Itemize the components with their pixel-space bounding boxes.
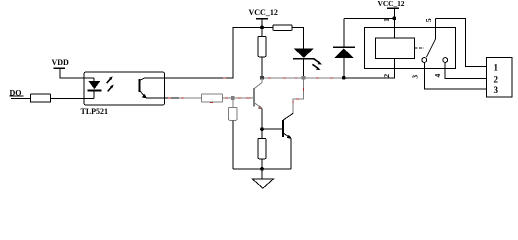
resistor R6 stem bottom xyxy=(232,120,234,169)
wire to Q2 base xyxy=(262,128,283,130)
connector J1 box xyxy=(487,58,512,97)
junction collector node at LED xyxy=(302,76,306,80)
resistor R1 pull-up stems xyxy=(261,27,263,82)
resistor R1 pull-up body xyxy=(258,36,266,56)
relay K1 link (dashed) xyxy=(415,47,424,49)
pin label 4 xyxy=(433,73,442,77)
wire U1 emitter out gray part xyxy=(179,97,202,99)
resistor R4 (emitter pulldown) xyxy=(258,139,266,159)
diode D1 cathode bar xyxy=(333,46,355,48)
wire relay pin 3 to connector pin 3 xyxy=(424,62,486,89)
power VDD bar xyxy=(54,67,66,69)
svg-text:1: 1 xyxy=(494,63,499,73)
wire step LED node to Q2 collector (gray) xyxy=(293,78,303,113)
ground symbol stem xyxy=(261,169,263,179)
resistor R6 stem top (gray) xyxy=(232,98,234,107)
junction Q2 base tap xyxy=(260,127,264,131)
junction ground rail xyxy=(260,167,264,171)
U1 phototransistor emitter xyxy=(139,90,147,98)
wire VCC to R2 xyxy=(262,26,273,28)
wire R2 to LED D2 xyxy=(292,27,304,48)
U1 LED cathode stem xyxy=(93,90,95,98)
U1 light arrow b xyxy=(108,85,114,92)
wire R5 to optocoupler LED xyxy=(51,98,95,100)
svg-text:4: 4 xyxy=(433,73,442,77)
transistor Q1 (gray, selected) xyxy=(254,78,263,109)
relay K1 contact 4 circle xyxy=(443,58,448,63)
U1 phototransistor base bar xyxy=(138,79,140,92)
junction collector node left xyxy=(260,76,264,80)
junction VCC right xyxy=(392,17,396,21)
relay K1 contact 3 circle xyxy=(422,58,427,63)
wire relay pin 4 to connector pin 2 xyxy=(445,62,486,78)
connector J1 pin 3 label xyxy=(494,85,499,95)
pin label 1 xyxy=(382,18,391,22)
U1 LED triangle xyxy=(89,81,101,89)
power VCC_12 (right) stem to coil pin 1 xyxy=(393,8,395,38)
Q1 emitter diagonal xyxy=(254,103,262,109)
LED D2 cathode bar xyxy=(293,58,315,60)
relay K1 box xyxy=(364,28,455,69)
red ERC dashes on gray nets xyxy=(168,78,333,103)
U1 LED anode stem xyxy=(93,78,95,82)
LED D2 triangle xyxy=(294,48,314,57)
LED D2 cathode stem xyxy=(303,59,305,78)
wire relay pin 5 to connector pin 1 xyxy=(436,18,487,66)
wire VCC branch to diode D1 xyxy=(344,17,395,19)
relay K1 lever xyxy=(426,39,435,58)
svg-text:2: 2 xyxy=(494,74,499,84)
svg-text:TLP521: TLP521 xyxy=(81,107,109,116)
wire U1 collector to VCC branch xyxy=(145,27,262,77)
wire Q1 emitter down xyxy=(261,109,263,169)
optocoupler U1 label TLP521 xyxy=(81,107,109,116)
diode D1 anode stem xyxy=(343,58,345,78)
svg-text:1: 1 xyxy=(382,18,391,22)
connector J1 pin 2 label xyxy=(494,74,499,84)
Q1 emitter arrowhead xyxy=(258,105,263,109)
svg-text:VDD: VDD xyxy=(52,58,70,67)
node DO underline xyxy=(10,95,24,97)
svg-text:VCC_12: VCC_12 xyxy=(378,0,405,8)
transistor Q2 base bar xyxy=(282,120,284,137)
power VCC_12 (middle) stem xyxy=(261,19,263,28)
svg-text:3: 3 xyxy=(494,85,499,95)
Q1 collector diagonal xyxy=(254,78,262,89)
power VCC_12 (right) label xyxy=(378,0,405,8)
diode D1 triangle xyxy=(334,49,354,59)
wire collector node (gray net) xyxy=(262,77,344,79)
power VDD label xyxy=(52,58,70,67)
diode D1 cathode stem xyxy=(343,18,345,47)
svg-text:3: 3 xyxy=(411,75,420,79)
transistor Q2 collector diagonal xyxy=(283,113,293,120)
U1 phototransistor collector xyxy=(139,78,145,81)
transistor Q2 emitter diagonal xyxy=(283,133,292,139)
power VCC_12 (middle) label xyxy=(249,8,278,17)
junction VCC middle xyxy=(260,26,264,30)
optocoupler U1 box xyxy=(84,72,165,105)
relay K1 pin 5 lead xyxy=(435,18,437,38)
node DO net label xyxy=(10,88,22,97)
resistor R3 body (base series, gray) xyxy=(202,94,223,102)
resistor R5 xyxy=(30,94,50,102)
svg-text:VCC_12: VCC_12 xyxy=(249,8,278,17)
LED D2 light arrow b xyxy=(312,64,320,70)
wire opto emitter resistor net (gray) xyxy=(223,97,255,99)
pin label 2 xyxy=(382,74,391,78)
wire Q2 emitter down xyxy=(290,138,292,169)
power VDD stem and wire to LED anode xyxy=(60,68,94,78)
wire U1 emitter out xyxy=(146,97,179,99)
wire coil pin 2 to diode xyxy=(344,58,395,77)
pin label 5 xyxy=(424,18,433,22)
wire DO to R5 xyxy=(11,98,30,100)
U1 LED cathode bar xyxy=(88,89,102,91)
resistor R2 (LED series) xyxy=(273,25,292,31)
junction diode anode xyxy=(342,76,346,80)
svg-text:5: 5 xyxy=(424,18,433,22)
pin label 3 xyxy=(411,75,420,79)
power VCC_12 (middle) bar xyxy=(256,18,268,20)
power VCC_12 (right) bar xyxy=(387,7,399,9)
LED D2 light arrow a xyxy=(314,59,322,65)
resistor R6 body xyxy=(229,107,237,120)
U1 light arrow a xyxy=(107,76,113,83)
connector J1 pin 1 label xyxy=(494,63,499,73)
Q1 base bar xyxy=(253,88,255,106)
relay K1 coil xyxy=(375,38,414,59)
wire ground rail xyxy=(233,168,291,170)
junction R6 tap xyxy=(231,96,235,100)
ground symbol triangle xyxy=(253,179,274,188)
svg-text:2: 2 xyxy=(382,74,391,78)
